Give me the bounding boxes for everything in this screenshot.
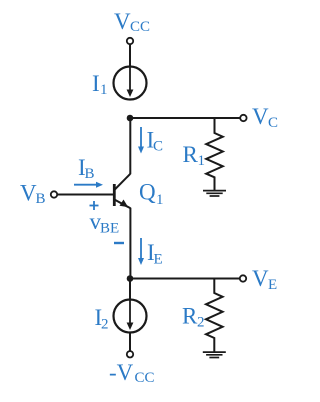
VC terminal [240, 115, 246, 121]
current source I1 [114, 67, 147, 100]
wire emitter node to VE [130, 278, 240, 280]
IC current arrow [138, 127, 144, 154]
IB current arrow [74, 182, 103, 188]
IC label [147, 128, 164, 155]
svg-text:I: I [92, 71, 100, 96]
svg-text:V: V [20, 181, 37, 206]
wire collector node to VC [130, 117, 240, 119]
svg-text:CC: CC [130, 19, 150, 35]
R1 label [183, 142, 206, 169]
svg-text:2: 2 [101, 317, 109, 333]
resistor R1 [206, 118, 223, 190]
svg-text:R: R [182, 304, 198, 329]
VCC label [114, 9, 150, 35]
svg-text:C: C [153, 139, 163, 155]
VB label [20, 181, 46, 208]
node C (collector) [127, 115, 134, 122]
IE current arrow [138, 238, 144, 265]
svg-text:-V: -V [109, 360, 134, 385]
svg-text:E: E [268, 277, 277, 293]
wire VB to base [57, 194, 113, 196]
-VCC terminal [127, 351, 133, 357]
I1 label [92, 71, 108, 98]
ground (R2) [203, 352, 226, 357]
vBE label [90, 209, 120, 237]
IB label [78, 155, 95, 182]
svg-text:CC: CC [135, 370, 155, 386]
svg-text:1: 1 [198, 153, 206, 169]
svg-text:1: 1 [156, 192, 164, 208]
vBE minus [114, 242, 124, 244]
svg-text:R: R [183, 142, 199, 167]
wire VCC to I1 [129, 44, 131, 66]
VB terminal [51, 191, 57, 197]
Q1 label [139, 180, 164, 209]
wire collector [129, 118, 131, 174]
svg-text:V: V [252, 266, 269, 291]
svg-text:1: 1 [100, 82, 108, 98]
wire emitter [129, 208, 131, 279]
-VCC label [109, 360, 155, 386]
IE label [147, 240, 163, 268]
svg-text:BE: BE [100, 221, 119, 237]
svg-text:Q: Q [139, 180, 156, 205]
resistor R2 [206, 279, 223, 352]
wire emitter node to I2 [129, 279, 131, 300]
transistor Q1 [114, 174, 130, 209]
svg-text:2: 2 [197, 315, 205, 331]
vBE plus [90, 201, 99, 210]
svg-text:B: B [85, 166, 95, 182]
svg-text:C: C [268, 115, 278, 131]
VC label [252, 104, 278, 131]
current source I2 [114, 300, 147, 333]
R2 label [182, 304, 205, 331]
svg-text:V: V [114, 9, 131, 34]
svg-text:E: E [154, 252, 163, 268]
node E (emitter) [127, 275, 134, 282]
VCC terminal [127, 38, 133, 44]
wire I2 to -VCC [129, 333, 131, 352]
VE terminal [240, 275, 246, 281]
svg-text:B: B [36, 191, 46, 207]
ground (R1) [203, 191, 226, 196]
VE label [252, 266, 277, 293]
I2 label [95, 305, 109, 333]
svg-text:V: V [252, 104, 269, 129]
